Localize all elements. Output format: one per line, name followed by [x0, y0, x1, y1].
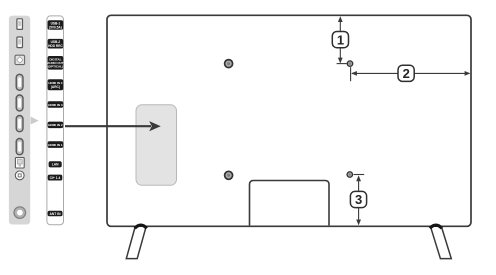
- svg-text:HDD REC: HDD REC: [48, 44, 63, 48]
- label HDMI IN 4 (ARC): [48, 79, 64, 90]
- USB port 1: [17, 19, 23, 30]
- label HDMI IN 2: [48, 122, 64, 129]
- dimension 2 line: [351, 67, 471, 81]
- antenna port: [14, 207, 26, 219]
- bottom terminal cover box: [250, 181, 330, 226]
- HDMI port 2: [16, 95, 23, 111]
- HDMI port 4: [16, 139, 23, 155]
- svg-text:1: 1: [337, 32, 344, 47]
- callout box 3: [350, 191, 366, 207]
- HDMI port 1: [16, 74, 23, 90]
- callout box 1: [332, 32, 348, 48]
- LAN port: [15, 158, 24, 168]
- svg-text:(5V0.5A): (5V0.5A): [49, 25, 62, 29]
- TV connector recess: [136, 105, 177, 186]
- svg-text:2: 2: [403, 66, 410, 81]
- label LAN: [49, 161, 62, 167]
- USB port 2: [17, 37, 23, 48]
- svg-text:3: 3: [355, 192, 362, 207]
- panel callout triangle: [31, 117, 39, 125]
- dimension 3 line: [354, 175, 365, 226]
- left leg: [126, 225, 147, 258]
- svg-text:(OPTICAL): (OPTICAL): [48, 65, 64, 69]
- svg-text:(ARC): (ARC): [51, 85, 60, 89]
- HDMI port 3: [16, 116, 23, 132]
- TV rear body: [107, 15, 471, 226]
- svg-text:HDMI IN 2: HDMI IN 2: [48, 123, 63, 127]
- label CI slot: [48, 175, 63, 181]
- mini jack port: [15, 171, 24, 180]
- callout box 2: [398, 65, 414, 81]
- right leg: [430, 225, 452, 258]
- dimension 1 line: [337, 16, 348, 63]
- VESA hole top-right: [347, 61, 353, 67]
- label HDMI IN 1: [48, 141, 64, 148]
- optical digital audio out port: [15, 55, 25, 64]
- VESA hole bottom-right: [347, 172, 353, 178]
- svg-text:HDMI IN 1: HDMI IN 1: [48, 143, 63, 147]
- svg-text:CI+ 1.4: CI+ 1.4: [50, 176, 61, 180]
- svg-text:HDMI IN 3: HDMI IN 3: [48, 103, 63, 107]
- label column panel: [47, 16, 64, 225]
- label DIGITAL AUDIO OUT (OPTICAL): [47, 56, 63, 70]
- label HDMI IN 3: [48, 101, 64, 108]
- svg-text:LAN: LAN: [52, 163, 59, 167]
- label ANT IN: [48, 211, 63, 217]
- arrow from panel to TV: [65, 121, 161, 131]
- label USB-1: [48, 20, 64, 30]
- label USB-2: [48, 39, 64, 49]
- connector strip panel: [9, 16, 30, 225]
- screw bottom-left: [225, 171, 233, 179]
- svg-text:ANT IN: ANT IN: [50, 212, 62, 216]
- screw top-left: [225, 60, 233, 68]
